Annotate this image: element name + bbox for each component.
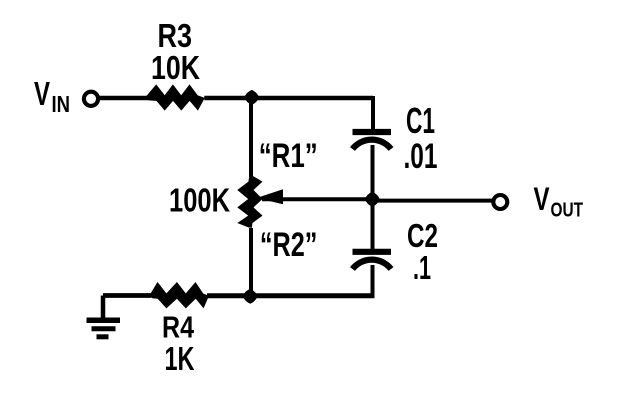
ground symbol stub (101, 296, 106, 321)
capacitor C2 curved plate (353, 260, 392, 269)
capacitor C1 top plate (353, 129, 392, 135)
wire wiper to node B (262, 197, 373, 201)
wire node A to top-right corner (252, 96, 373, 101)
resistor R4 (151, 282, 210, 308)
svg-text:10K: 10K (151, 49, 200, 86)
wire C1 to node B (371, 145, 375, 200)
terminal V_IN (84, 92, 98, 106)
wire C2 bottom to bottom rail (371, 265, 375, 296)
ground bar 3 (97, 334, 109, 339)
svg-text:100K: 100K (169, 182, 230, 219)
capacitor C2 top plate (353, 249, 392, 255)
svg-text:“R1”: “R1” (259, 137, 318, 175)
wire VIN terminal to R3 (100, 96, 152, 101)
svg-text:.1: .1 (413, 249, 431, 286)
wire ground to R4 (103, 293, 152, 298)
wire node A down to potentiometer (249, 96, 253, 177)
wiper arrow head (257, 189, 284, 204)
svg-text:.01: .01 (404, 137, 438, 176)
ground bar 1 (87, 318, 121, 324)
node C junction dot (243, 289, 258, 304)
resistor R3 (147, 84, 205, 110)
svg-text:IN: IN (52, 91, 71, 117)
wire potentiometer down to node C (249, 228, 253, 297)
wire R3 to node A (204, 96, 252, 101)
terminal V_OUT (493, 195, 507, 209)
wire node B to VOUT terminal (373, 199, 493, 203)
node A junction dot (244, 90, 259, 105)
svg-text:1K: 1K (165, 340, 195, 377)
svg-text:C1: C1 (406, 100, 435, 141)
svg-text:V: V (34, 75, 50, 112)
svg-text:V: V (534, 181, 550, 217)
wire corner down to C1 (371, 96, 375, 131)
node B junction dot (365, 192, 380, 207)
wire C2 top from node B (371, 200, 375, 251)
svg-text:OUT: OUT (551, 199, 584, 222)
capacitor C1 curved plate (353, 140, 392, 149)
ground bar 2 (92, 326, 116, 331)
wire node C to below C2 (250, 293, 375, 298)
wire R4 to node C (207, 293, 250, 298)
svg-text:“R2”: “R2” (260, 226, 318, 264)
potentiometer R1/R2 100K (237, 176, 262, 228)
